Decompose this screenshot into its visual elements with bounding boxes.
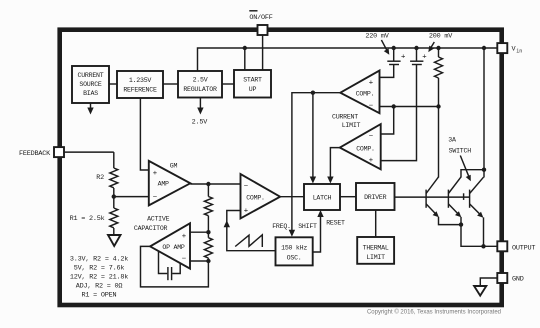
wire op-amp feedback loop — [141, 246, 209, 287]
svg-text:GND: GND — [512, 276, 524, 284]
node Q3 emitter to output junction — [481, 244, 485, 248]
label FEEDBACK — [19, 150, 51, 158]
svg-text:LATCH: LATCH — [313, 195, 332, 202]
node compensation mid junction — [190, 230, 211, 234]
node rail-resistor junction — [436, 46, 440, 50]
svg-text:+: + — [369, 155, 374, 164]
battery 200mV offset — [381, 48, 428, 161]
op-amp current limit comparator 1 — [340, 71, 379, 114]
svg-text:DRIVER: DRIVER — [364, 194, 387, 201]
svg-text:CAPACITOR: CAPACITOR — [134, 225, 168, 232]
wire oscillator to comparator plus — [224, 211, 276, 251]
node rail-battery1 junction — [392, 46, 396, 50]
svg-text:200 mV: 200 mV — [429, 33, 453, 41]
svg-text:COMP.: COMP. — [246, 195, 265, 202]
transistor Q1 — [426, 177, 461, 225]
svg-text:LIMIT: LIMIT — [366, 254, 385, 261]
node compensation bottom junction — [190, 259, 211, 263]
svg-text:Copyright © 2016, Texas Instru: Copyright © 2016, Texas Instruments Inco… — [367, 309, 501, 316]
svg-text:5V, R2 = 7.6k: 5V, R2 = 7.6k — [74, 265, 125, 273]
svg-text:SWITCH: SWITCH — [449, 148, 472, 155]
resistor compensation upper — [204, 184, 212, 232]
arrow below regulator — [197, 98, 203, 115]
svg-text:R2: R2 — [96, 174, 104, 182]
svg-text:AMP: AMP — [158, 181, 169, 188]
label Vin — [512, 46, 523, 55]
svg-text:+: + — [182, 231, 187, 240]
box 1.235V reference — [117, 71, 163, 98]
svg-text:OP AMP: OP AMP — [162, 244, 185, 251]
wire Vin to switch collectors — [461, 48, 486, 178]
label 3A switch — [448, 137, 471, 182]
resistor compensation lower — [204, 232, 212, 261]
label active capacitor — [134, 215, 170, 232]
label resistor divider values — [70, 256, 128, 300]
svg-text:OSC.: OSC. — [287, 255, 302, 262]
box start up — [234, 70, 271, 98]
pin OUTPUT — [497, 241, 507, 251]
arrow from 200mV label to battery — [428, 42, 434, 52]
arrow below current source bias — [87, 103, 93, 115]
wire comparator1 output to latch and freq shift — [292, 91, 340, 231]
IC boundary frame — [60, 30, 502, 305]
svg-text:+: + — [369, 78, 374, 87]
svg-text:FEEDBACK: FEEDBACK — [19, 150, 51, 158]
svg-text:CURRENT: CURRENT — [332, 114, 358, 121]
svg-text:−: − — [369, 131, 374, 140]
svg-text:+: + — [401, 52, 406, 61]
svg-text:THERMAL: THERMAL — [363, 245, 389, 252]
svg-text:CURRENT: CURRENT — [78, 72, 104, 79]
label ON/OFF — [249, 11, 272, 22]
wire current sense to comparators minus — [380, 104, 441, 134]
svg-text:+: + — [244, 205, 249, 214]
pin GND — [480, 273, 507, 286]
op-amp active capacitor — [150, 223, 190, 268]
resistor R2 — [96, 152, 118, 197]
op-amp PWM comparator — [241, 174, 281, 218]
wire bias to reference — [109, 83, 117, 85]
label copyright — [367, 309, 501, 316]
wire base rail from driver — [395, 196, 470, 198]
svg-text:RESET: RESET — [326, 220, 345, 227]
node base line tick — [463, 193, 465, 200]
node R2 R1 junction — [112, 194, 149, 198]
svg-text:R1 = OPEN: R1 = OPEN — [82, 292, 117, 300]
box 150 kHz oscillator — [276, 237, 313, 265]
node rail-battery2 junction — [414, 46, 418, 50]
svg-text:R1 = 2.5k: R1 = 2.5k — [70, 215, 105, 223]
pin Vin — [497, 43, 507, 53]
svg-text:START: START — [243, 77, 262, 84]
svg-text:UP: UP — [249, 86, 257, 93]
label freq shift — [272, 223, 317, 230]
svg-text:−: − — [244, 181, 249, 190]
arrow freq shift into oscillator — [289, 230, 295, 237]
wire ON/OFF drop to START UP — [262, 35, 264, 70]
svg-text:FREQ.: FREQ. — [272, 223, 291, 230]
wire sense line down to Q1 collector — [438, 107, 440, 178]
svg-text:REFERENCE: REFERENCE — [123, 87, 157, 94]
svg-text:REGULATOR: REGULATOR — [183, 86, 217, 93]
sawtooth waveform — [235, 235, 262, 247]
svg-text:150 kHz: 150 kHz — [281, 245, 307, 252]
label reset — [326, 220, 345, 227]
pin ON/OFF — [258, 25, 268, 35]
svg-text:OUTPUT: OUTPUT — [512, 244, 535, 252]
wire comparator2 output to latch — [327, 148, 340, 184]
wire reference to regulator — [163, 83, 178, 85]
svg-text:+: + — [153, 168, 158, 177]
resistor current sense — [435, 48, 443, 107]
box driver — [340, 183, 395, 210]
svg-text:12V, R2 = 21.8k: 12V, R2 = 21.8k — [70, 274, 128, 282]
ground near GND pin — [474, 286, 486, 296]
box latch — [280, 184, 340, 210]
svg-text:BIAS: BIAS — [83, 90, 98, 97]
wire GM output to comparator — [190, 182, 240, 186]
node rail-switch junction — [482, 46, 486, 50]
op-amp current limit comparator 2 — [340, 124, 381, 169]
svg-text:ON/OFF: ON/OFF — [249, 14, 272, 22]
svg-text:ADJ, R2 = 0Ω: ADJ, R2 = 0Ω — [76, 283, 123, 291]
resistor R1 — [70, 197, 118, 235]
svg-text:+: + — [422, 52, 427, 61]
svg-text:2.5V: 2.5V — [193, 77, 208, 84]
node rail-startup junction — [243, 46, 247, 70]
label current limit — [332, 114, 361, 130]
svg-text:COMP.: COMP. — [356, 146, 375, 153]
box thermal limit — [357, 210, 394, 264]
arrow from 220mV label to battery — [381, 40, 389, 55]
svg-text:3.3V, R2 = 4.2k: 3.3V, R2 = 4.2k — [70, 256, 128, 264]
label GND — [512, 276, 524, 284]
svg-text:SOURCE: SOURCE — [79, 81, 102, 88]
ground below R1 — [108, 235, 121, 246]
wire regulator to startup — [222, 83, 234, 85]
capacitor integrator — [159, 252, 181, 281]
svg-text:−: − — [153, 192, 158, 201]
svg-text:1.235V: 1.235V — [129, 77, 152, 84]
svg-text:220 mV: 220 mV — [365, 33, 389, 41]
battery 220mV offset — [380, 48, 407, 77]
svg-text:COMP.: COMP. — [356, 91, 375, 98]
svg-text:LIMIT: LIMIT — [342, 122, 361, 129]
svg-text:SHIFT: SHIFT — [298, 223, 317, 230]
op-amp GM amp — [149, 161, 191, 206]
label OUTPUT — [512, 244, 535, 252]
label 2.5V output — [192, 119, 209, 127]
wire reset from oscillator to latch — [313, 210, 324, 252]
node Q1 Q2 emitters junction — [459, 222, 498, 246]
svg-text:−: − — [182, 253, 187, 262]
svg-text:in: in — [516, 49, 522, 55]
label 200 mV — [429, 33, 453, 41]
transistor Q3 — [470, 177, 484, 246]
svg-text:−: − — [369, 101, 374, 110]
svg-text:2.5V: 2.5V — [192, 119, 209, 127]
pin FEEDBACK — [54, 147, 114, 157]
wire Vin rail — [198, 48, 498, 71]
svg-text:3A: 3A — [448, 137, 456, 144]
svg-text:GM: GM — [170, 163, 178, 170]
label 220 mV — [365, 33, 389, 41]
box current source bias — [72, 66, 109, 103]
svg-text:ACTIVE: ACTIVE — [147, 215, 170, 222]
transistor Q2 — [448, 177, 461, 225]
box 2.5V regulator — [178, 71, 222, 98]
wire reference to gm amp plus input — [140, 98, 148, 170]
